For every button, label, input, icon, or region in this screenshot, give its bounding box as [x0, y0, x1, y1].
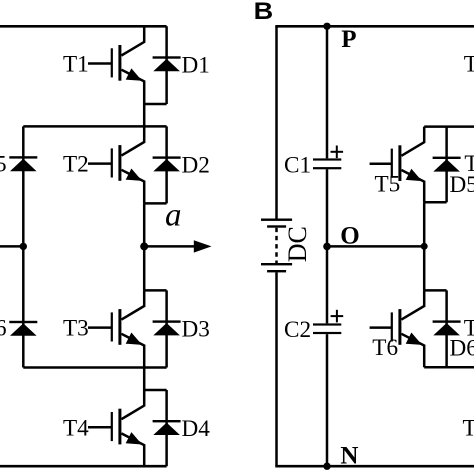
node: T5/T6 midpoint junction dot: [421, 243, 428, 250]
svg-text:D1: D1: [182, 53, 210, 79]
transistor T3 (IGBT): [88, 290, 144, 367]
svg-text:T: T: [464, 51, 474, 77]
wire: clamp node X1 horizontal (D5 cathode to T1/T2 midpoint): [23, 125, 166, 128]
svg-text:D6: D6: [0, 316, 7, 342]
wire: output arrow from node a: [144, 240, 211, 252]
node N junction dot: [323, 463, 330, 470]
node a junction dot: [140, 242, 148, 250]
svg-text:N: N: [340, 443, 358, 470]
svg-text:T3: T3: [63, 316, 89, 342]
diode D4 (freewheeling, antiparallel with T4): [153, 390, 181, 466]
diode D1 (freewheeling, antiparallel with T1): [153, 26, 181, 104]
wire: node X2 link (T3 emitter to T4 collector): [143, 368, 146, 391]
wire: DC source lower lead: [275, 272, 278, 466]
node: clamp diode midpoint junction dot: [20, 243, 27, 250]
battery DC source (multi-cell, dashed middle): [261, 219, 292, 273]
wire: T5 emitter to T6 collector (through midpoint): [423, 202, 426, 290]
node P junction dot: [323, 23, 330, 30]
diode D3 (freewheeling, antiparallel with T3): [153, 290, 181, 367]
polarity + mark of C1: [331, 146, 344, 159]
polarity + mark of C2: [331, 310, 344, 323]
transistor T6 (IGBT): [370, 290, 425, 367]
diode D6 (freewheeling, antiparallel with T6): [433, 290, 461, 367]
svg-text:DC: DC: [283, 226, 312, 262]
wire: T4 collector / D4 cathode junction (cell 4 top): [144, 389, 166, 392]
svg-text:T6: T6: [372, 335, 398, 361]
wire: top DC+ rail of figure B: [275, 25, 474, 28]
wire: T5 emitter / D5 anode junction (cell bottom): [424, 201, 446, 204]
svg-text:T: T: [464, 151, 474, 177]
svg-text:P: P: [341, 26, 356, 53]
transistor T1 (IGBT): [88, 26, 144, 104]
transistor T2 (IGBT): [88, 126, 144, 203]
wire: T1 emitter / D1 anode junction (cell 1 bottom): [144, 103, 166, 106]
clamp diode D6 (lower, label cut at left edge): [9, 321, 37, 336]
diode D5 (freewheeling, antiparallel with T5): [433, 127, 461, 203]
wire: T2 emitter / D2 anode junction (cell 2 bottom): [144, 202, 166, 205]
node O junction dot: [323, 243, 331, 251]
svg-text:T4: T4: [63, 415, 89, 441]
svg-text:D2: D2: [182, 153, 210, 179]
wire: bottom DC- rail of figure B: [275, 465, 474, 468]
svg-text:B: B: [254, 0, 274, 25]
svg-text:a: a: [165, 198, 182, 234]
wire: C1 to node O: [326, 169, 329, 246]
wire: neutral O stub entering from left image edge: [0, 245, 23, 248]
svg-text:C1: C1: [284, 152, 311, 178]
svg-text:C2: C2: [284, 317, 311, 343]
wire: node O to C2: [326, 246, 329, 323]
transistor T4 (IGBT): [88, 390, 144, 466]
wire: neutral rail from node O to T5/T6 midpoint: [327, 245, 424, 248]
svg-text:T: T: [463, 416, 474, 442]
wire: phase leg vertical through output node a: [143, 203, 146, 290]
clamp diode D5 (upper, label cut at left edge): [9, 156, 37, 171]
wire: bottom DC- rail of figure A: [0, 465, 167, 468]
wire: node X1 link (T1 emitter to T2 collector): [143, 104, 146, 126]
svg-text:D3: D3: [182, 317, 210, 343]
svg-text:T: T: [464, 315, 474, 341]
svg-text:T1: T1: [63, 52, 89, 78]
wire: DC-link capacitor branch P to C1: [326, 26, 329, 158]
capacitor C1: [313, 158, 341, 169]
wire: C2 to node N: [326, 334, 329, 466]
svg-text:T5: T5: [375, 172, 401, 198]
wire: T6 cell bottom (runs off right image edge): [424, 366, 474, 369]
wire: T3 collector / D3 cathode junction (cell 3 top): [144, 289, 166, 292]
svg-text:D5: D5: [0, 151, 7, 177]
wire: clamp diode branch vertical (X1 to X2): [22, 126, 25, 367]
wire: clamp node X2 horizontal (D6 anode to T3/T4 midpoint): [23, 366, 166, 369]
transistor T5 (IGBT): [370, 127, 425, 203]
svg-text:D4: D4: [182, 416, 211, 442]
wire: T6 cell top: [424, 289, 446, 292]
svg-text:T2: T2: [63, 152, 89, 178]
capacitor C2: [313, 323, 341, 334]
diode D2 (freewheeling, antiparallel with T2): [153, 126, 181, 203]
wire: DC source upper lead: [275, 26, 278, 218]
wire: T5 cell top (runs off right image edge): [424, 125, 474, 128]
wire: top DC+ rail of figure A: [0, 25, 167, 28]
